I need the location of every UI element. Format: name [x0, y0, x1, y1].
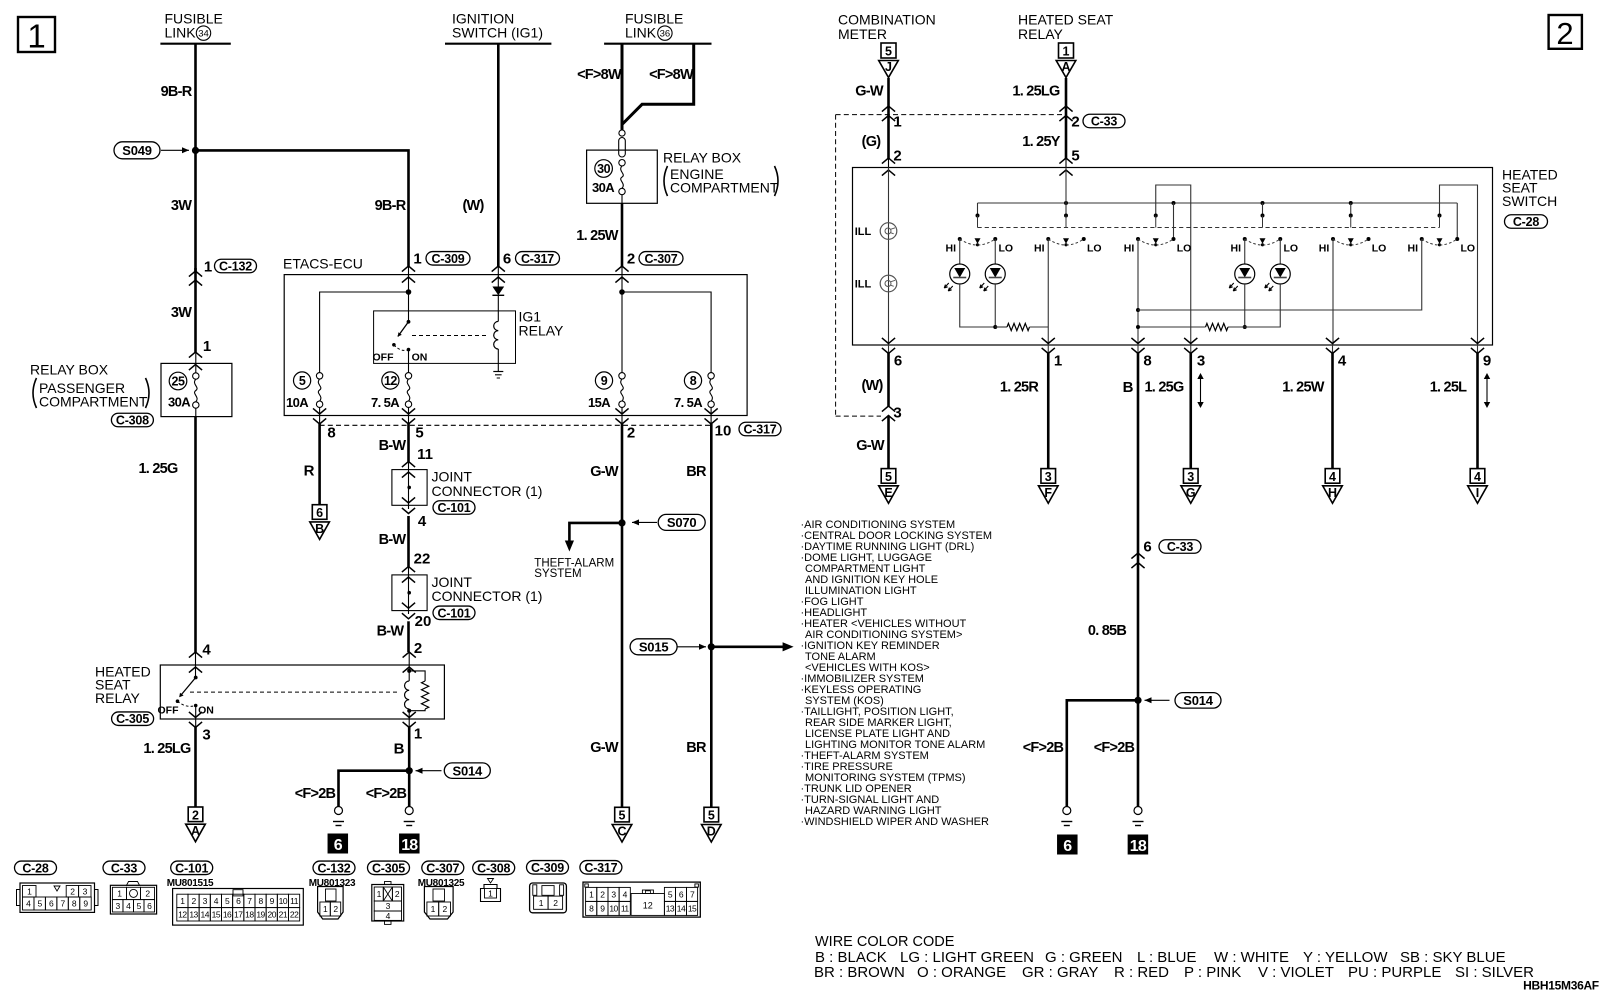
- svg-text:C-132: C-132: [219, 260, 252, 274]
- wiper 4 feed: [1262, 203, 1264, 216]
- component label HEATED SEAT RELAY (source): [1018, 12, 1114, 42]
- svg-text:LO: LO: [998, 242, 1013, 254]
- svg-text:15A: 15A: [588, 395, 611, 410]
- connector table C-28: [15, 861, 99, 912]
- terminal J (connector 5): [881, 43, 896, 58]
- resistor R2 to B wire: [1138, 326, 1206, 328]
- svg-text:METER: METER: [838, 26, 887, 42]
- svg-text:O : ORANGE: O : ORANGE: [917, 964, 1006, 981]
- terminal G (connector 3): [1183, 469, 1198, 484]
- svg-text:BR : BROWN: BR : BROWN: [814, 964, 905, 981]
- switch linkage dashed: [978, 227, 1440, 229]
- svg-text:C-33: C-33: [111, 861, 138, 875]
- wire 1.25G from fuse 25: [194, 417, 197, 652]
- ETACS pin 2 C-307: [615, 250, 683, 282]
- connector ref C-101 upper: [433, 501, 475, 515]
- svg-text:C-309: C-309: [531, 861, 564, 875]
- IG1 relay linkage dashed: [412, 335, 489, 337]
- component label COMBINATION METER: [838, 12, 936, 42]
- svg-text:2: 2: [627, 424, 635, 441]
- svg-text:MU801323: MU801323: [309, 878, 356, 889]
- svg-text:G: G: [1186, 486, 1196, 500]
- indicator LED 1: [950, 264, 970, 284]
- svg-text:R : RED: R : RED: [1114, 964, 1169, 981]
- svg-text:1: 1: [27, 17, 45, 54]
- system label THEFT-ALARM SYSTEM: [534, 558, 614, 581]
- splice S014 (right page): [1134, 693, 1221, 709]
- connector ref C-308: [111, 413, 153, 427]
- terminal F (connector 3): [1041, 469, 1056, 484]
- wire B-W joint1 to joint2: [407, 516, 410, 567]
- switch pair 3 HI/LO: [1124, 214, 1192, 255]
- svg-text:C-101: C-101: [175, 861, 208, 875]
- svg-text:ON: ON: [198, 705, 214, 717]
- svg-text:S014: S014: [453, 763, 484, 778]
- svg-text:4: 4: [1329, 470, 1336, 484]
- svg-text:C-307: C-307: [426, 861, 459, 875]
- svg-text:1. 25G: 1. 25G: [1144, 380, 1183, 396]
- wire G-W to terminal E: [887, 416, 890, 469]
- wire G-W fuse9 to terminal C: [621, 424, 624, 807]
- svg-text:RELAY: RELAY: [1018, 26, 1064, 42]
- svg-text:3: 3: [1187, 470, 1194, 484]
- wire S014 to ground 18 right: [1137, 700, 1140, 806]
- lamp ILL 1: [880, 223, 897, 240]
- wire HI1 to LED: [959, 239, 961, 264]
- svg-text:5: 5: [708, 809, 715, 823]
- svg-text:C-28: C-28: [1513, 215, 1540, 229]
- svg-text:1. 25LG: 1. 25LG: [1012, 84, 1060, 100]
- svg-text:WIRE COLOR CODE: WIRE COLOR CODE: [815, 934, 955, 950]
- svg-text:30A: 30A: [168, 395, 191, 410]
- fuse 25 30A: [168, 352, 199, 417]
- ground ref box 18: [399, 834, 420, 854]
- diode D1 (IG1 relay): [492, 275, 504, 322]
- ground 18 right page: [1134, 807, 1142, 815]
- svg-text:COMPARTMENT: COMPARTMENT: [670, 180, 779, 196]
- svg-text:B-W: B-W: [379, 532, 407, 548]
- svg-text:8: 8: [1143, 352, 1151, 369]
- terminal B (connector 6): [312, 505, 327, 520]
- svg-text:(W): (W): [861, 378, 883, 394]
- svg-text:6: 6: [316, 506, 323, 520]
- svg-text:5: 5: [885, 45, 892, 59]
- svg-text:GR : GRAY: GR : GRAY: [1022, 964, 1098, 981]
- svg-text:OFF: OFF: [158, 705, 180, 717]
- component label JOINT CONNECTOR (1) upper: [432, 469, 543, 499]
- indicator LED 2: [985, 264, 1005, 284]
- svg-text:HI: HI: [1231, 242, 1242, 254]
- svg-text:2: 2: [1071, 113, 1079, 130]
- svg-text:HI: HI: [1319, 242, 1330, 254]
- terminal I (connector 4): [1470, 469, 1485, 484]
- relay box passenger pin 1: [189, 338, 211, 370]
- ground ref box 6 right: [1057, 835, 1078, 855]
- wire (W) pin6 down: [887, 353, 890, 406]
- svg-text:LO: LO: [1460, 242, 1475, 254]
- wire 1.25LG to terminal A: [194, 727, 197, 807]
- wire B-W pin5 to joint connector 1: [407, 424, 410, 462]
- svg-text:C-309: C-309: [431, 252, 464, 266]
- wire B pin8 down: [1137, 353, 1140, 563]
- svg-text:3: 3: [202, 726, 210, 743]
- component label IG1 RELAY: [519, 309, 565, 339]
- svg-text:1: 1: [204, 258, 212, 275]
- svg-text:RELAY: RELAY: [95, 690, 141, 706]
- ETACS bottom pin chevrons x=408.5: [402, 407, 415, 424]
- svg-text:<F>2B: <F>2B: [295, 786, 336, 802]
- fuse 12 7.5A: [371, 372, 412, 410]
- wire 1.25W to terminal H: [1331, 353, 1334, 469]
- connector table C-305: [368, 861, 410, 924]
- svg-text:14: 14: [200, 909, 209, 919]
- splice S070: [565, 514, 705, 551]
- svg-text:S015: S015: [639, 640, 669, 655]
- connector table C-33: [103, 861, 157, 914]
- wire LO1 to LED: [994, 239, 996, 264]
- svg-text:11: 11: [621, 904, 630, 914]
- svg-text:2: 2: [1556, 16, 1573, 51]
- wire to fuse 5: [320, 292, 409, 373]
- svg-text:12: 12: [178, 909, 187, 919]
- terminal D (connector 5): [704, 807, 719, 822]
- ETACS bottom pin chevrons x=622: [615, 407, 628, 424]
- wire B to splice S014: [408, 727, 411, 771]
- svg-text:1. 25Y: 1. 25Y: [1022, 134, 1060, 150]
- svg-text:7. 5A: 7. 5A: [371, 395, 400, 410]
- terminal A (connector 1): [1059, 43, 1074, 58]
- wiper 5 feed: [1350, 203, 1352, 216]
- power source label FUSIBLE LINK 36: [604, 11, 711, 44]
- svg-text:S070: S070: [667, 515, 697, 530]
- svg-text:18: 18: [245, 909, 254, 919]
- svg-text:25: 25: [172, 375, 185, 389]
- wire pin2 to fuse 9: [621, 292, 623, 373]
- legend line 2: [814, 964, 1534, 981]
- svg-text:34: 34: [198, 29, 209, 40]
- switch pair 4 HI/LO: [1231, 214, 1299, 255]
- LO3 to bus: [1173, 203, 1175, 239]
- svg-text:C: C: [617, 825, 626, 839]
- lamp ILL 2: [880, 275, 897, 292]
- svg-text:21: 21: [279, 909, 288, 919]
- LED group 2 common: [1228, 284, 1280, 329]
- svg-text:1: 1: [413, 250, 421, 267]
- svg-text:7. 5A: 7. 5A: [674, 395, 703, 410]
- C-33 pin 2 label (relay): [1071, 113, 1125, 130]
- svg-text:C-305: C-305: [372, 861, 405, 875]
- wire 9B-R from fusible link 34: [194, 44, 197, 151]
- heated seat relay switch: [158, 652, 214, 727]
- svg-text:G-W: G-W: [590, 464, 619, 480]
- wire HI2 to pin 1: [1047, 239, 1049, 345]
- switch pair 6 HI/LO: [1408, 214, 1476, 255]
- pin 3 wiper loop: [1156, 185, 1191, 345]
- svg-text:8: 8: [690, 374, 697, 388]
- svg-text:1: 1: [1054, 352, 1062, 369]
- svg-text:R: R: [304, 462, 315, 479]
- svg-text:C-307: C-307: [644, 252, 677, 266]
- C-33 chevrons meter wire: [882, 106, 895, 121]
- resistor R1 to pin 1 wire: [1030, 326, 1049, 328]
- component label RELAY BOX (PASSENGER COMPARTMENT): [30, 362, 149, 410]
- wire 3W from C-132 to relay box: [194, 268, 197, 352]
- ETACS pin 10 label C-317: [715, 422, 781, 439]
- switch pin 3 chevrons: [1184, 338, 1205, 370]
- IG1 relay coil: [494, 321, 499, 371]
- svg-text:V : VIOLET: V : VIOLET: [1258, 964, 1334, 981]
- wire stub to ground 18: [408, 771, 411, 807]
- splice S014 (left page): [406, 763, 491, 779]
- svg-text:C-317: C-317: [521, 252, 554, 266]
- fusible link holder pins: [619, 126, 626, 157]
- svg-text:B: B: [1123, 379, 1134, 396]
- svg-text:C-33: C-33: [1091, 115, 1118, 129]
- svg-text:B: B: [394, 740, 405, 757]
- svg-text:10A: 10A: [286, 395, 309, 410]
- connector table C-317: [580, 861, 700, 918]
- ILL wire (meter): [888, 168, 890, 346]
- svg-text:3: 3: [1197, 352, 1205, 369]
- svg-text:9B-R: 9B-R: [161, 84, 193, 100]
- svg-text:C-305: C-305: [116, 712, 149, 726]
- svg-text:15: 15: [688, 904, 697, 914]
- svg-text:6: 6: [894, 352, 902, 369]
- switch pair 1 HI/LO: [946, 214, 1014, 255]
- svg-text:G-W: G-W: [856, 438, 885, 454]
- joint connector 2 pin 22: [402, 551, 430, 573]
- svg-text:CONNECTOR (1): CONNECTOR (1): [432, 588, 543, 604]
- svg-text:HI: HI: [946, 242, 957, 254]
- svg-text:LO: LO: [1372, 242, 1387, 254]
- splice S049: [114, 142, 199, 159]
- svg-text:0. 85B: 0. 85B: [1088, 623, 1126, 639]
- heated seat relay pin 2 (top): [403, 640, 423, 672]
- C-33 chevrons relay wire: [1059, 106, 1072, 121]
- svg-text:14: 14: [677, 904, 686, 914]
- ground 6: [335, 807, 343, 815]
- svg-text:6: 6: [334, 837, 343, 854]
- svg-text:H: H: [1328, 486, 1337, 500]
- wire (W) ignition to ETACS pin 6: [497, 44, 500, 266]
- wire to fuse 8: [622, 292, 711, 373]
- svg-text:1. 25G: 1. 25G: [138, 461, 177, 477]
- svg-text:5: 5: [415, 424, 423, 441]
- IG1 relay outline: [374, 311, 516, 364]
- wire 1.25LG from heated seat relay: [1065, 78, 1068, 168]
- svg-text:1: 1: [414, 726, 422, 743]
- ETACS connector dashed line: [320, 424, 711, 426]
- svg-text:C-28: C-28: [22, 861, 49, 875]
- IG1 relay coil ground: [493, 372, 503, 379]
- svg-text:HI: HI: [1408, 242, 1419, 254]
- fuse 9 15A: [588, 372, 625, 410]
- ground 6 right page: [1063, 807, 1071, 815]
- heated seat switch pin 2 chevrons: [882, 158, 895, 176]
- relay box passenger outline: [161, 363, 232, 416]
- direction arrow (L wire): [1486, 377, 1488, 404]
- svg-text:SWITCH (IG1): SWITCH (IG1): [452, 24, 543, 40]
- ETACS pin 6 C-317: [492, 250, 560, 282]
- in-line connector C-132 pin 1: [189, 258, 257, 285]
- joint connector 1: [392, 462, 427, 514]
- ETACS bottom pin chevrons x=711.1: [705, 407, 718, 424]
- component label HEATED SEAT SWITCH: [1502, 167, 1558, 209]
- component label JOINT CONNECTOR (1) lower: [432, 574, 543, 604]
- svg-text:20: 20: [268, 909, 277, 919]
- svg-text:C-132: C-132: [317, 861, 350, 875]
- svg-text:SYSTEM: SYSTEM: [534, 568, 581, 580]
- svg-text:A: A: [191, 824, 200, 838]
- svg-text:S014: S014: [1183, 693, 1214, 708]
- svg-text:12: 12: [384, 374, 397, 388]
- svg-text:3W: 3W: [171, 198, 192, 214]
- svg-text:MU801515: MU801515: [167, 878, 214, 889]
- svg-text:C-101: C-101: [437, 606, 470, 620]
- svg-text:30: 30: [597, 162, 610, 176]
- heated seat switch outline: [853, 168, 1493, 346]
- svg-text:E: E: [884, 486, 892, 500]
- switch pin 6 chevrons: [882, 338, 902, 370]
- svg-text:D: D: [707, 825, 716, 839]
- joint connector 2: [392, 567, 427, 619]
- svg-text:5: 5: [1071, 147, 1079, 164]
- heated seat relay pin 4: [189, 641, 211, 672]
- svg-text:12: 12: [643, 901, 653, 911]
- svg-text:13: 13: [189, 909, 198, 919]
- svg-text:LO: LO: [1177, 242, 1192, 254]
- svg-text:·WINDSHIELD WIPER AND WASHER: ·WINDSHIELD WIPER AND WASHER: [801, 816, 989, 828]
- svg-text:1. 25L: 1. 25L: [1430, 380, 1467, 396]
- svg-text:HI: HI: [1034, 242, 1045, 254]
- connector ref C-28: [1505, 215, 1548, 229]
- svg-text:<F>2B: <F>2B: [1094, 740, 1135, 756]
- connector table C-308: [473, 861, 515, 901]
- svg-text:1. 25W: 1. 25W: [1282, 380, 1324, 396]
- wire 0.85B: [1137, 563, 1140, 701]
- svg-text:<F>8W: <F>8W: [577, 67, 622, 83]
- connector table C-132: [309, 861, 356, 919]
- power source label FUSIBLE LINK 34: [160, 11, 230, 44]
- svg-text:COMPARTMENT: COMPARTMENT: [39, 393, 148, 409]
- svg-text:3: 3: [1045, 470, 1052, 484]
- svg-text:RELAY: RELAY: [519, 322, 565, 338]
- svg-text:A: A: [1061, 60, 1070, 74]
- svg-text:4: 4: [202, 641, 211, 658]
- svg-text:ILL: ILL: [855, 226, 872, 238]
- system usage list: [801, 519, 993, 828]
- svg-text:ETACS-ECU: ETACS-ECU: [283, 256, 363, 272]
- svg-text:LINK: LINK: [625, 24, 657, 40]
- svg-text:5: 5: [299, 374, 306, 388]
- svg-text:LO: LO: [1087, 242, 1102, 254]
- fuse 30 30A: [592, 160, 625, 196]
- terminal A (connector 2): [188, 807, 203, 822]
- connector ref C-101 lower: [433, 606, 475, 620]
- svg-text:1. 25R: 1. 25R: [1000, 380, 1039, 396]
- connector table C-309: [527, 861, 569, 913]
- svg-text:RELAY BOX: RELAY BOX: [30, 362, 109, 378]
- svg-text:P : PINK: P : PINK: [1184, 964, 1241, 981]
- wire 1.25L to terminal I: [1476, 353, 1479, 469]
- wire 1.25G to terminal G: [1189, 353, 1192, 469]
- svg-text:C-33: C-33: [1167, 540, 1194, 554]
- svg-text:17: 17: [234, 909, 243, 919]
- page corner marker box 1: [18, 17, 55, 54]
- resistor R1: [1007, 323, 1030, 330]
- LED group 1 common: [960, 284, 1007, 329]
- node ETACS pin1 junction: [406, 275, 412, 295]
- svg-text:CONNECTOR (1): CONNECTOR (1): [432, 483, 543, 499]
- switch supply bus: [978, 202, 1458, 204]
- svg-text:B: B: [315, 522, 324, 536]
- svg-text:11: 11: [290, 896, 299, 906]
- ground branch wire: [339, 771, 410, 807]
- svg-text:<F>2B: <F>2B: [366, 786, 407, 802]
- svg-text:9: 9: [601, 374, 608, 388]
- svg-text:10: 10: [609, 904, 618, 914]
- ETACS pin 1 C-309: [402, 250, 470, 282]
- svg-text:10: 10: [279, 896, 288, 906]
- svg-text:4: 4: [1474, 470, 1481, 484]
- heated seat relay outline: [160, 665, 444, 719]
- wire 8W right branch: [622, 44, 694, 125]
- svg-text:6: 6: [503, 250, 511, 267]
- svg-text:(G): (G): [862, 134, 882, 150]
- svg-text:30A: 30A: [592, 180, 615, 195]
- wire LO4 to LED: [1279, 239, 1281, 264]
- LO6 to bus: [1456, 203, 1458, 239]
- heated seat relay pin 3: [189, 712, 211, 744]
- wire 3W to C-132: [194, 150, 197, 271]
- wire HI5 to pin 4: [1332, 239, 1334, 345]
- ground 18: [405, 807, 413, 815]
- svg-text:19: 19: [256, 909, 265, 919]
- indicator LED 3: [1235, 264, 1255, 284]
- node ETACS pin2 junction: [619, 275, 625, 295]
- svg-text:G-W: G-W: [590, 740, 619, 756]
- svg-text:ILL: ILL: [855, 279, 872, 291]
- connector table C-307: [418, 861, 465, 919]
- svg-text:2: 2: [192, 808, 199, 822]
- svg-text:C-308: C-308: [477, 861, 510, 875]
- page corner marker box 2: [1549, 15, 1582, 51]
- svg-text:18: 18: [1130, 838, 1147, 855]
- heated seat switch pin 5 chevrons: [1059, 158, 1072, 176]
- svg-text:B-W: B-W: [379, 438, 407, 454]
- connector C-33 dashed outline: [836, 115, 1066, 417]
- svg-text:15: 15: [212, 909, 221, 919]
- svg-text:4: 4: [386, 911, 391, 921]
- svg-text:1: 1: [893, 113, 901, 130]
- ETACS bottom pin chevrons x=319.6: [313, 407, 326, 424]
- svg-text:<F>8W: <F>8W: [649, 67, 694, 83]
- switch pin 8 chevrons: [1131, 338, 1151, 370]
- indicator LED 4: [1270, 264, 1290, 284]
- svg-text:4: 4: [418, 513, 427, 530]
- svg-text:S049: S049: [122, 143, 152, 158]
- svg-text:6: 6: [1063, 838, 1072, 855]
- svg-text:C-317: C-317: [584, 861, 617, 875]
- svg-text:5: 5: [885, 470, 892, 484]
- relay linkage dashed: [190, 691, 400, 693]
- svg-text:1: 1: [488, 889, 493, 899]
- svg-text:22: 22: [414, 551, 431, 568]
- svg-text:HBH15M36AF: HBH15M36AF: [1523, 978, 1599, 992]
- svg-text:OFF: OFF: [373, 351, 395, 363]
- svg-text:2: 2: [893, 147, 901, 164]
- svg-text:18: 18: [401, 837, 418, 854]
